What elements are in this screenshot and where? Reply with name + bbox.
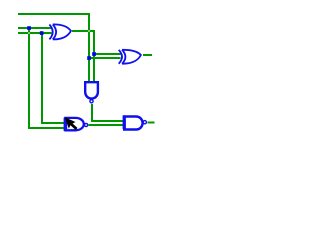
junction node B dot on V1 <box>87 56 91 60</box>
junction node A dot on V2 <box>92 52 96 56</box>
NAND gate U3 (pointing down) <box>85 82 98 98</box>
NAND U5 bubble <box>143 121 146 124</box>
wire VC from node on W3 down then right to gate U4 upper input <box>42 33 66 123</box>
NAND U4 back bar <box>64 118 68 131</box>
NAND U3 bubble <box>90 100 93 103</box>
crossing tick V1 over XOR U1 output wire <box>88 30 89 31</box>
junction node dot on W2 <box>27 26 31 30</box>
wire node A branch to XOR U2 upper input <box>94 53 121 55</box>
wire XOR U2 output stub <box>143 54 152 56</box>
wire W1 top rail + vertical V1 down to NAND U3 left input <box>18 14 89 82</box>
crossing tick VB over W3 <box>28 32 29 33</box>
XOR gate U1 <box>49 24 71 39</box>
NAND U4 bubble <box>85 123 88 126</box>
NAND gate U5 (bottom right) <box>124 117 142 130</box>
XOR gate U2 <box>119 50 141 64</box>
wire VB from node on W2 down then right to gate U4 lower input <box>29 28 66 128</box>
junction node dot on W3 <box>40 31 44 35</box>
wire W2 into XOR U1 upper input <box>18 27 52 29</box>
wire U4 output to NAND U5 lower input <box>88 124 124 126</box>
wire XOR U1 output + vertical V2 down to NAND U3 right input <box>72 31 94 82</box>
wire W3 into XOR U1 lower input <box>18 32 52 34</box>
NAND gate U4 (being dragged, under cursor) <box>65 118 83 130</box>
wire node B branch to XOR U2 lower input <box>89 57 121 59</box>
wire NAND U3 output down then right to NAND U5 upper input <box>92 104 124 121</box>
mouse cursor arrow <box>65 118 77 130</box>
NAND U5 back bar <box>123 115 126 129</box>
wire NAND U5 output stub <box>147 121 154 123</box>
